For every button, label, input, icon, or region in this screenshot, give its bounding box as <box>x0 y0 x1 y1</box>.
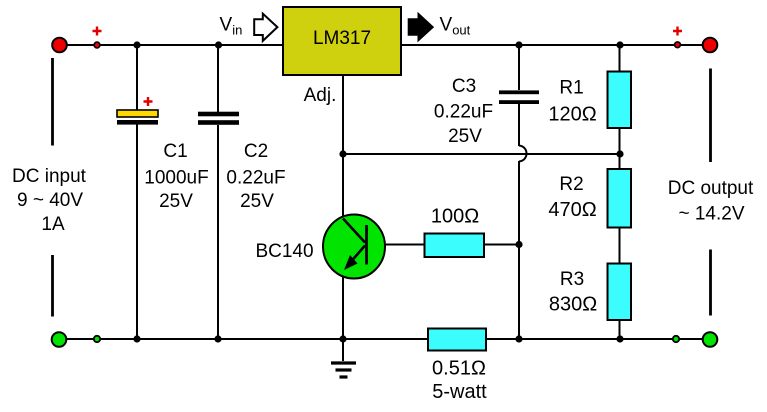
wire bottom rail <box>59 338 710 340</box>
label 0.51 ohm <box>432 358 487 404</box>
label C3 value <box>434 76 493 147</box>
terminal input plus <box>52 38 67 53</box>
label C2 value <box>226 141 285 212</box>
wire base <box>366 244 424 246</box>
node C2 top <box>215 41 222 48</box>
svg-text:R1: R1 <box>559 78 583 99</box>
svg-text:120Ω: 120Ω <box>548 104 596 126</box>
svg-text:25V: 25V <box>240 191 274 212</box>
label DC input <box>12 166 87 235</box>
svg-text:9 ~ 40V: 9 ~ 40V <box>17 190 83 211</box>
Vout filled arrow <box>408 13 433 41</box>
resistor R3 <box>608 264 632 321</box>
svg-text:C1: C1 <box>163 141 187 162</box>
node emitter ground <box>339 335 346 342</box>
C1 plus mark <box>144 97 153 106</box>
svg-text:25V: 25V <box>159 191 193 212</box>
node Adj junction <box>339 150 346 157</box>
terminal output minus <box>703 332 718 347</box>
node R3 bottom <box>616 335 623 342</box>
svg-text:R3: R3 <box>560 269 584 290</box>
svg-text:DC input: DC input <box>12 166 87 187</box>
svg-text:0.22uF: 0.22uF <box>226 168 285 189</box>
svg-text:470Ω: 470Ω <box>548 199 596 221</box>
wire LM317 Adj pin <box>342 76 344 154</box>
wire C1 branch <box>136 45 138 339</box>
capacitor C1 electrolytic <box>117 110 158 125</box>
input minus small dot <box>94 336 100 342</box>
output plus mark <box>673 27 682 36</box>
wire collector <box>342 154 344 218</box>
resistor R2 <box>608 169 632 228</box>
wire base resistor to node <box>485 244 519 246</box>
svg-text:DC output: DC output <box>668 178 754 199</box>
output plus small dot <box>675 42 681 48</box>
svg-text:100Ω: 100Ω <box>431 206 479 228</box>
svg-text:25V: 25V <box>448 126 482 147</box>
label R3 value <box>549 269 597 316</box>
terminal input minus <box>52 332 67 347</box>
svg-text:5-watt: 5-watt <box>432 381 487 403</box>
input plus small dot <box>94 42 100 48</box>
svg-text:1000uF: 1000uF <box>144 168 208 189</box>
node C2 bottom <box>214 335 221 342</box>
svg-text:830Ω: 830Ω <box>549 294 597 316</box>
label DC output <box>668 178 754 225</box>
input plus mark <box>93 27 102 36</box>
svg-text:BC140: BC140 <box>255 241 313 262</box>
svg-text:C2: C2 <box>244 141 268 162</box>
wire C3 branch with hop <box>519 45 527 339</box>
node C1 top <box>133 41 140 48</box>
node R1 top <box>616 41 623 48</box>
node C3 top <box>515 41 522 48</box>
node R1 R2 junction <box>616 150 623 157</box>
svg-text:LM317: LM317 <box>313 28 371 49</box>
capacitor C2 <box>198 112 239 125</box>
label R1 value <box>548 78 596 126</box>
svg-text:~ 14.2V: ~ 14.2V <box>678 204 744 225</box>
svg-text:1A: 1A <box>41 214 65 235</box>
wire top rail <box>59 44 710 46</box>
resistor R1 <box>608 72 632 129</box>
svg-text:C3: C3 <box>452 76 476 97</box>
resistor shunt 0.51 ohm <box>428 329 486 351</box>
node sense bottom <box>515 335 522 342</box>
label R2 value <box>548 174 596 221</box>
svg-text:0.51Ω: 0.51Ω <box>432 358 486 380</box>
node C1 bottom <box>133 335 140 342</box>
output minus small dot <box>673 336 679 342</box>
Vin hollow arrow <box>254 14 277 41</box>
transistor Q1 BC140 <box>323 215 385 279</box>
svg-text:Adj.: Adj. <box>304 85 337 106</box>
output side bracket line <box>709 69 712 316</box>
capacitor C3 <box>499 90 539 104</box>
wire C2 branch <box>217 45 219 339</box>
wire Adj horizontal <box>343 153 620 155</box>
wire resistor chain <box>619 45 621 339</box>
svg-text:R2: R2 <box>559 174 583 195</box>
svg-text:0.22uF: 0.22uF <box>434 102 493 123</box>
label C1 value <box>144 141 208 212</box>
op-amp U1 LM317 regulator box <box>283 7 401 75</box>
node base resistor junction <box>515 241 522 248</box>
ground <box>331 339 356 377</box>
resistor base 100 ohm <box>425 234 485 258</box>
input side bracket line <box>51 58 54 317</box>
wire emitter <box>342 274 344 339</box>
terminal output plus <box>703 38 718 53</box>
